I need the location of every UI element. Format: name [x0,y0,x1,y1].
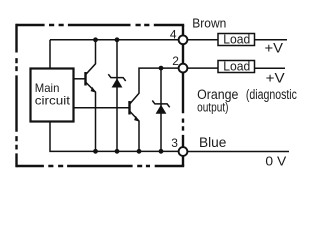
svg-text:+V: +V [265,41,284,56]
svg-text:Blue: Blue [199,135,226,150]
svg-text:Brown: Brown [192,15,226,30]
svg-text:3: 3 [171,136,178,150]
svg-text:2: 2 [172,54,179,68]
svg-text:Load: Load [223,32,250,46]
svg-text:+V: +V [266,70,285,85]
svg-text:Load: Load [223,59,250,73]
svg-text:4: 4 [170,27,177,41]
svg-text:(diagnostic: (diagnostic [246,87,297,102]
svg-text:0 V: 0 V [265,154,286,169]
svg-text:output): output) [197,99,228,114]
svg-text:circuit: circuit [35,93,71,107]
